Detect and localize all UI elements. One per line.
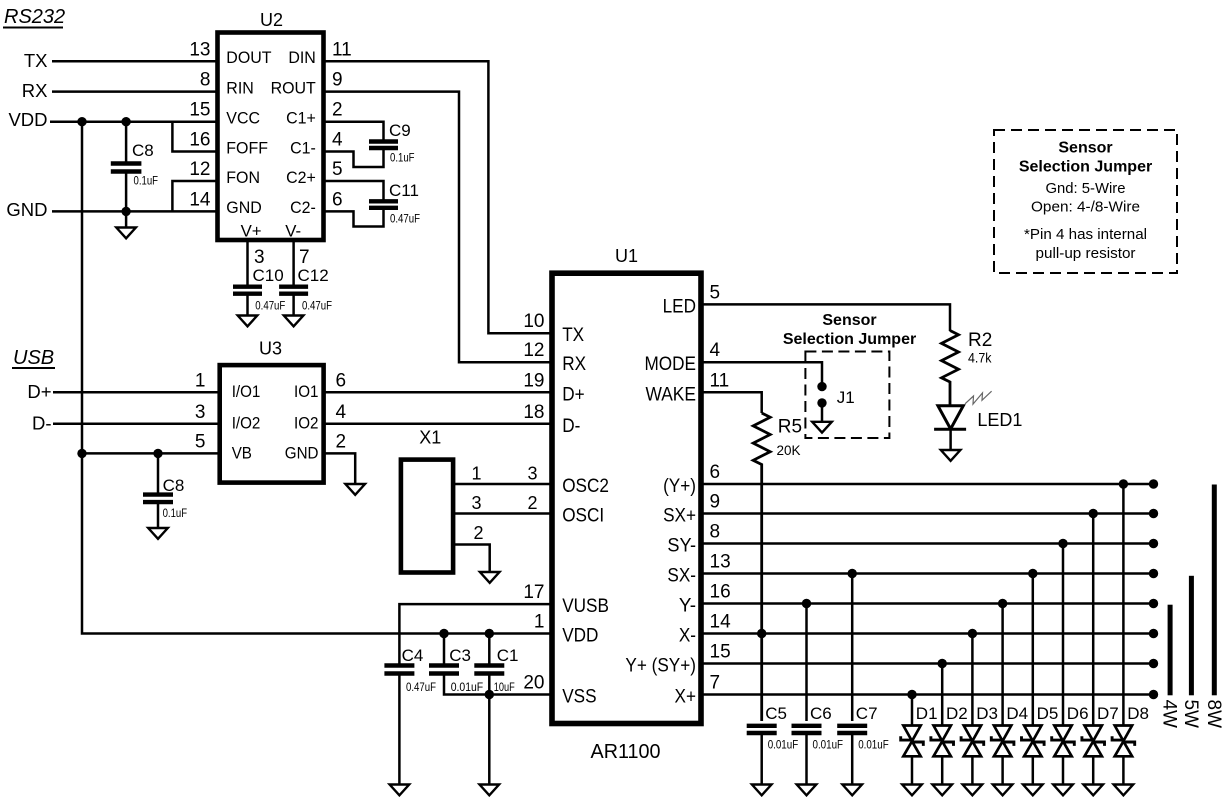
svg-text:X-: X- (679, 625, 696, 647)
svg-text:0.01uF: 0.01uF (858, 737, 889, 751)
svg-text:4: 4 (336, 402, 347, 423)
svg-text:VSS: VSS (562, 686, 596, 708)
svg-text:16: 16 (710, 582, 731, 603)
svg-text:7: 7 (299, 247, 310, 268)
svg-text:D+: D+ (27, 381, 51, 402)
svg-text:R2: R2 (968, 330, 992, 351)
svg-text:C1-: C1- (290, 138, 316, 157)
svg-text:11: 11 (332, 39, 352, 60)
svg-text:DOUT: DOUT (226, 48, 271, 67)
svg-text:OSCI: OSCI (562, 505, 604, 527)
svg-text:0.47uF: 0.47uF (302, 299, 332, 313)
svg-text:4W: 4W (1159, 700, 1180, 729)
svg-text:D3: D3 (976, 704, 998, 723)
svg-text:AR1100: AR1100 (591, 740, 661, 763)
svg-text:Selection Jumper: Selection Jumper (1019, 159, 1152, 176)
svg-text:X1: X1 (419, 428, 441, 448)
svg-text:C1: C1 (497, 646, 519, 665)
svg-text:VB: VB (232, 444, 252, 462)
svg-text:11: 11 (710, 370, 730, 391)
svg-text:8W: 8W (1203, 700, 1224, 729)
svg-text:13: 13 (710, 552, 731, 573)
svg-text:D2: D2 (946, 704, 968, 723)
svg-text:DIN: DIN (288, 48, 315, 67)
svg-text:3: 3 (254, 247, 265, 268)
svg-text:pull-up resistor: pull-up resistor (1036, 245, 1136, 262)
svg-text:17: 17 (523, 582, 544, 603)
svg-text:15: 15 (710, 642, 731, 663)
svg-text:8: 8 (710, 522, 721, 543)
svg-text:C1+: C1+ (286, 109, 316, 128)
svg-text:LED: LED (663, 295, 696, 317)
svg-text:GND: GND (6, 199, 47, 220)
svg-text:D8: D8 (1127, 704, 1149, 723)
svg-text:*Pin 4 has internal: *Pin 4 has internal (1024, 226, 1147, 243)
svg-text:GND: GND (285, 444, 319, 462)
svg-text:7: 7 (710, 673, 721, 694)
svg-text:TX: TX (24, 50, 48, 71)
svg-text:Sensor: Sensor (1058, 140, 1112, 157)
svg-text:Open: 4-/8-Wire: Open: 4-/8-Wire (1031, 199, 1140, 216)
svg-text:4: 4 (710, 340, 721, 361)
svg-text:1: 1 (534, 612, 545, 633)
svg-text:D1: D1 (916, 704, 938, 723)
svg-text:I/O1: I/O1 (232, 383, 261, 401)
svg-text:0.1uF: 0.1uF (390, 151, 415, 165)
svg-text:C2+: C2+ (286, 168, 316, 187)
svg-text:16: 16 (189, 130, 210, 151)
svg-text:D+: D+ (562, 383, 584, 405)
svg-text:R5: R5 (778, 417, 802, 438)
svg-text:FOFF: FOFF (226, 138, 268, 157)
svg-text:IO2: IO2 (294, 415, 318, 433)
svg-text:U1: U1 (615, 246, 638, 266)
svg-text:5: 5 (710, 282, 721, 303)
svg-text:C12: C12 (298, 266, 329, 285)
svg-text:5: 5 (332, 159, 343, 180)
svg-text:0.01uF: 0.01uF (451, 680, 484, 694)
svg-text:C3: C3 (449, 646, 471, 665)
svg-text:IO1: IO1 (294, 383, 318, 401)
svg-text:VDD: VDD (562, 625, 598, 647)
svg-text:I/O2: I/O2 (232, 415, 261, 433)
svg-text:6: 6 (710, 462, 721, 483)
svg-text:C2-: C2- (290, 198, 316, 217)
svg-text:9: 9 (710, 492, 721, 513)
svg-text:C8: C8 (132, 141, 154, 160)
svg-text:6: 6 (336, 370, 347, 391)
svg-text:0.1uF: 0.1uF (134, 174, 159, 188)
svg-text:WAKE: WAKE (645, 383, 696, 405)
svg-text:D6: D6 (1067, 704, 1089, 723)
svg-text:6: 6 (332, 189, 343, 210)
svg-text:0.47uF: 0.47uF (255, 299, 285, 313)
svg-text:D4: D4 (1006, 704, 1028, 723)
svg-text:13: 13 (189, 39, 210, 60)
svg-text:2: 2 (332, 100, 343, 121)
svg-text:OSC2: OSC2 (562, 475, 609, 497)
svg-text:2: 2 (473, 523, 483, 543)
svg-text:SY-: SY- (667, 535, 696, 557)
svg-text:VCC: VCC (226, 109, 260, 128)
svg-text:X+: X+ (675, 686, 696, 708)
svg-text:USB: USB (13, 347, 54, 369)
svg-text:LED1: LED1 (977, 410, 1022, 430)
svg-text:14: 14 (710, 612, 732, 633)
svg-text:D-: D- (562, 415, 580, 437)
svg-text:0.01uF: 0.01uF (768, 737, 799, 751)
svg-text:RIN: RIN (226, 78, 253, 97)
svg-text:4: 4 (332, 130, 343, 151)
svg-text:15: 15 (189, 100, 210, 121)
svg-text:RX: RX (562, 353, 586, 375)
svg-text:20: 20 (523, 673, 544, 694)
svg-text:C8: C8 (163, 476, 185, 495)
svg-text:19: 19 (523, 370, 544, 391)
svg-text:RX: RX (22, 80, 48, 101)
svg-text:2: 2 (527, 493, 537, 513)
svg-text:1: 1 (195, 370, 206, 391)
svg-text:TX: TX (562, 324, 584, 346)
svg-text:4.7k: 4.7k (968, 350, 992, 366)
svg-text:U3: U3 (259, 339, 282, 359)
svg-text:FON: FON (226, 168, 260, 187)
svg-text:Y-: Y- (679, 595, 696, 617)
svg-text:U2: U2 (260, 10, 283, 30)
svg-text:D5: D5 (1037, 704, 1059, 723)
svg-text:10: 10 (523, 311, 544, 332)
svg-text:V+: V+ (241, 222, 262, 241)
svg-text:J1: J1 (837, 388, 855, 407)
svg-text:1: 1 (471, 464, 481, 484)
svg-text:VUSB: VUSB (562, 595, 609, 617)
svg-text:GND: GND (226, 198, 261, 217)
svg-text:10uF: 10uF (494, 680, 515, 694)
svg-text:C9: C9 (389, 121, 411, 140)
svg-text:12: 12 (189, 159, 210, 180)
svg-text:SX-: SX- (667, 565, 696, 587)
svg-text:0.01uF: 0.01uF (813, 737, 844, 751)
svg-text:Gnd: 5-Wire: Gnd: 5-Wire (1046, 180, 1126, 197)
svg-text:12: 12 (523, 340, 544, 361)
svg-text:Sensor: Sensor (822, 312, 876, 329)
svg-text:V-: V- (285, 222, 301, 241)
svg-text:Selection Jumper: Selection Jumper (783, 331, 916, 348)
svg-text:C6: C6 (810, 704, 832, 723)
svg-text:0.47uF: 0.47uF (406, 680, 436, 694)
svg-text:3: 3 (471, 493, 481, 513)
svg-text:0.1uF: 0.1uF (163, 506, 188, 520)
svg-text:C5: C5 (765, 704, 787, 723)
svg-text:3: 3 (527, 464, 537, 484)
svg-text:3: 3 (195, 402, 206, 423)
svg-text:20K: 20K (777, 442, 802, 458)
svg-text:C4: C4 (402, 646, 424, 665)
svg-text:14: 14 (189, 189, 211, 210)
svg-text:RS232: RS232 (4, 6, 65, 28)
svg-text:5W: 5W (1180, 700, 1201, 729)
svg-text:Y+ (SY+): Y+ (SY+) (625, 655, 696, 677)
svg-text:9: 9 (332, 70, 343, 91)
svg-text:C10: C10 (253, 266, 284, 285)
svg-text:C7: C7 (856, 704, 878, 723)
svg-text:SX+: SX+ (663, 505, 696, 527)
svg-text:0.47uF: 0.47uF (390, 212, 420, 226)
svg-text:C11: C11 (389, 181, 419, 200)
svg-text:2: 2 (336, 431, 347, 452)
svg-text:(Y+): (Y+) (663, 475, 696, 497)
svg-text:D7: D7 (1097, 704, 1119, 723)
svg-text:5: 5 (195, 431, 206, 452)
svg-text:D-: D- (32, 412, 52, 433)
svg-text:ROUT: ROUT (271, 78, 316, 97)
svg-text:MODE: MODE (645, 353, 696, 375)
svg-text:VDD: VDD (8, 109, 47, 130)
svg-text:18: 18 (523, 402, 544, 423)
svg-text:8: 8 (200, 70, 211, 91)
